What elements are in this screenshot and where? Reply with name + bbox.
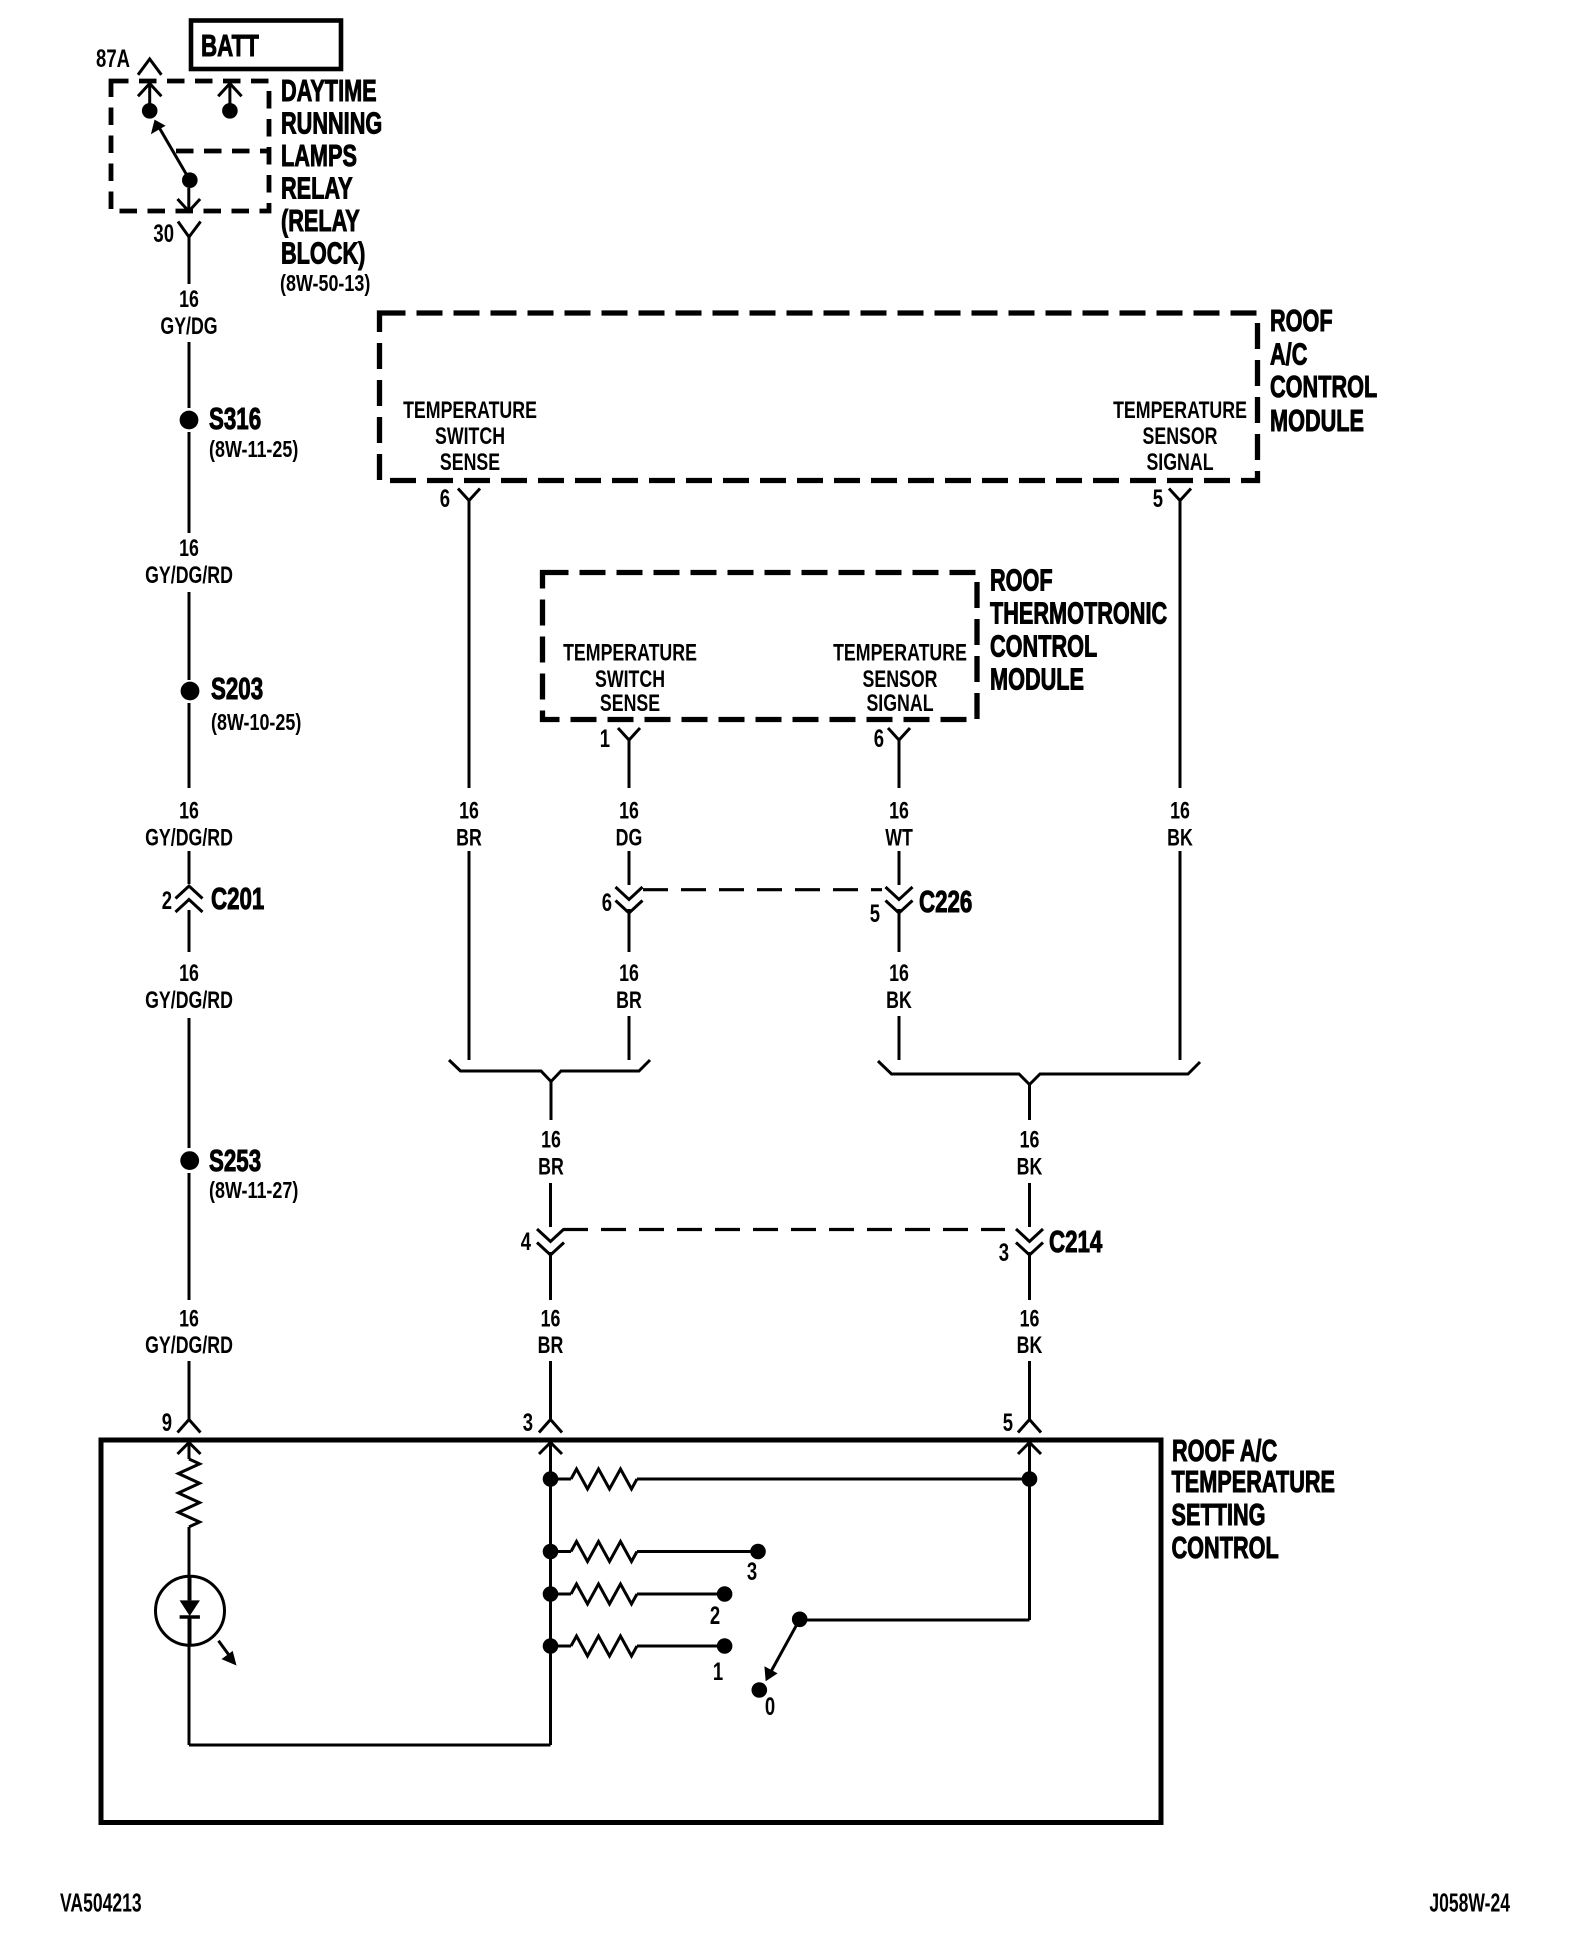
connector C214 pin 3	[1016, 1229, 1043, 1242]
wire BK to pin 5	[1028, 1361, 1031, 1420]
merged BR wire	[550, 1082, 553, 1121]
wire	[188, 1527, 191, 1579]
wire	[188, 1361, 191, 1420]
svg-text:BK: BK	[1017, 1154, 1043, 1180]
svg-text:(8W-11-25): (8W-11-25)	[209, 437, 298, 463]
svg-text:(RELAY: (RELAY	[281, 203, 360, 238]
wire from lamp to bottom rail	[188, 1645, 191, 1745]
svg-text:GY/DG: GY/DG	[160, 314, 217, 340]
svg-text:1: 1	[600, 724, 610, 752]
svg-text:(8W-50-13): (8W-50-13)	[280, 271, 370, 297]
wire	[188, 432, 191, 533]
wire BR below C226	[628, 909, 631, 952]
wire BK below C214	[1028, 1252, 1031, 1300]
svg-text:DAYTIME: DAYTIME	[281, 73, 377, 108]
svg-text:SENSE: SENSE	[600, 691, 660, 717]
svg-text:CONTROL: CONTROL	[990, 629, 1097, 664]
wire DG lower segment	[628, 851, 631, 885]
C226 harness dashed link	[643, 888, 882, 891]
svg-text:16: 16	[459, 798, 479, 824]
relay pin 30 internal wire + down arrow	[187, 188, 190, 211]
svg-text:3: 3	[523, 1408, 533, 1436]
wire	[188, 851, 191, 884]
svg-text:BATT: BATT	[201, 28, 259, 62]
svg-text:LAMPS: LAMPS	[281, 138, 357, 173]
relay pin 86 terminal (arrow + dot)	[218, 84, 241, 97]
svg-text:16: 16	[1170, 798, 1190, 824]
svg-text:5: 5	[1003, 1408, 1013, 1436]
resistor row1	[551, 1478, 572, 1481]
wire	[188, 342, 191, 408]
svg-text:S253: S253	[209, 1143, 261, 1177]
wire WT from thermotronic pin 6	[898, 740, 901, 788]
resistor row2	[551, 1550, 572, 1553]
svg-text:BK: BK	[886, 988, 912, 1014]
svg-text:MODULE: MODULE	[990, 662, 1084, 697]
svg-text:5: 5	[870, 899, 880, 927]
svg-text:BR: BR	[616, 988, 642, 1014]
component: ROOF A/C TEMPERATURE SETTING CONTROL box	[101, 1440, 1161, 1823]
wire WT lower segment	[898, 851, 901, 885]
resistor row4	[551, 1645, 572, 1648]
svg-text:VA504213: VA504213	[60, 1888, 142, 1917]
svg-text:TEMPERATURE: TEMPERATURE	[403, 398, 537, 424]
svg-text:MODULE: MODULE	[1270, 403, 1364, 438]
wire BR below C214	[549, 1252, 552, 1300]
merged BK wire to C214	[1028, 1183, 1031, 1227]
connector C201 pin 2	[176, 886, 203, 899]
wire BK from roof A/C pin 5	[1179, 501, 1182, 789]
svg-text:16: 16	[889, 961, 909, 987]
svg-text:SENSOR: SENSOR	[1142, 424, 1217, 450]
svg-text:RUNNING: RUNNING	[281, 106, 382, 141]
terminal 0 dot	[752, 1682, 768, 1698]
svg-text:TEMPERATURE: TEMPERATURE	[833, 640, 967, 666]
svg-text:BR: BR	[538, 1333, 564, 1359]
wire BK to splice brace	[898, 1016, 901, 1060]
relay: daytime running lamps relay (relay block) K1	[111, 81, 269, 211]
power source BATT	[191, 21, 341, 70]
svg-text:GY/DG/RD: GY/DG/RD	[145, 988, 233, 1014]
svg-text:6: 6	[440, 484, 450, 512]
relay switch arm with arrow toward 87A	[159, 127, 190, 180]
relay pin 87A terminal (arrow + dot)	[138, 84, 161, 97]
svg-text:9: 9	[162, 1408, 172, 1436]
svg-text:16: 16	[179, 798, 199, 824]
relay internal divider	[176, 149, 269, 154]
svg-text:(8W-11-27): (8W-11-27)	[209, 1178, 298, 1204]
junction dot row1	[543, 1471, 559, 1487]
wire	[188, 1018, 191, 1148]
wire	[188, 592, 191, 680]
lamp arrow indicator	[219, 1641, 231, 1657]
merged BK wire	[1028, 1085, 1031, 1121]
svg-text:DG: DG	[616, 825, 643, 851]
svg-text:TEMPERATURE: TEMPERATURE	[1172, 1464, 1336, 1499]
pin 87A chevron above relay	[138, 59, 161, 75]
svg-text:(8W-10-25): (8W-10-25)	[211, 710, 301, 736]
svg-text:S203: S203	[211, 671, 263, 705]
selector switch arm with arrow	[771, 1619, 800, 1671]
svg-text:0: 0	[765, 1692, 775, 1720]
lamp/LED circle	[156, 1576, 225, 1645]
terminal 2 dot	[717, 1586, 733, 1602]
svg-text:TEMPERATURE: TEMPERATURE	[563, 640, 697, 666]
splice S203	[181, 682, 200, 701]
svg-text:S316: S316	[209, 401, 261, 435]
selector wire to pin5 column	[800, 1619, 1030, 1622]
svg-text:SIGNAL: SIGNAL	[1146, 450, 1213, 476]
svg-text:16: 16	[179, 961, 199, 987]
svg-text:C226: C226	[919, 884, 972, 918]
relay switch common dot	[182, 172, 198, 188]
splice S253	[180, 1151, 199, 1170]
svg-text:BR: BR	[538, 1154, 564, 1180]
junction dot row1 right	[1022, 1471, 1038, 1487]
junction dot row4	[543, 1638, 559, 1654]
wire: relay 30 down	[188, 237, 191, 284]
svg-text:16: 16	[889, 798, 909, 824]
svg-text:16: 16	[619, 798, 639, 824]
svg-text:BK: BK	[1167, 825, 1193, 851]
svg-text:GY/DG/RD: GY/DG/RD	[145, 1333, 233, 1359]
wire	[188, 703, 191, 788]
svg-text:SENSOR: SENSOR	[862, 667, 937, 693]
junction dot row3	[543, 1586, 559, 1602]
wire row4 to terminal 1	[637, 1645, 725, 1648]
svg-text:16: 16	[1020, 1306, 1040, 1332]
svg-text:87A: 87A	[96, 44, 130, 72]
svg-text:SWITCH: SWITCH	[435, 424, 505, 450]
wire row3 to terminal 2	[637, 1593, 725, 1596]
wire row2 to terminal 3	[637, 1550, 758, 1553]
svg-text:ROOF: ROOF	[1270, 303, 1333, 338]
svg-text:16: 16	[1020, 1127, 1040, 1153]
svg-text:2: 2	[162, 886, 172, 914]
svg-text:16: 16	[179, 536, 199, 562]
svg-text:6: 6	[874, 724, 884, 752]
svg-text:3: 3	[747, 1557, 757, 1585]
connector C226 pin 5	[886, 887, 913, 900]
selector switch pivot dot	[792, 1612, 808, 1628]
svg-text:BLOCK): BLOCK)	[281, 236, 365, 271]
wire BK below C226	[898, 909, 901, 952]
splice brace joining BR wires	[449, 1060, 650, 1082]
svg-text:CONTROL: CONTROL	[1270, 369, 1377, 404]
svg-text:4: 4	[521, 1227, 532, 1255]
svg-text:1: 1	[713, 1657, 723, 1685]
svg-text:ROOF A/C: ROOF A/C	[1172, 1433, 1277, 1468]
wire	[188, 910, 191, 952]
wire BR to splice brace	[628, 1016, 631, 1060]
bottom rail wire to pin3 column	[189, 1744, 551, 1747]
svg-text:ROOF: ROOF	[990, 563, 1053, 598]
svg-text:GY/DG/RD: GY/DG/RD	[145, 563, 233, 589]
svg-text:16: 16	[541, 1127, 561, 1153]
svg-text:SIGNAL: SIGNAL	[866, 691, 933, 717]
terminal 1 dot	[717, 1638, 733, 1654]
C214 harness dashed link	[563, 1228, 1005, 1231]
junction dot row2	[543, 1544, 559, 1560]
svg-text:3: 3	[999, 1238, 1009, 1266]
connector C226 pin 6	[616, 887, 643, 900]
splice brace joining BK wires	[878, 1061, 1200, 1085]
svg-text:CONTROL: CONTROL	[1172, 1530, 1279, 1565]
svg-text:5: 5	[1153, 484, 1163, 512]
svg-text:16: 16	[179, 1306, 199, 1332]
resistor (vertical) at pin 9	[178, 1459, 199, 1527]
svg-text:SETTING: SETTING	[1172, 1497, 1266, 1532]
module: ROOF THERMOTRONIC CONTROL MODULE	[543, 573, 978, 720]
svg-text:SWITCH: SWITCH	[595, 667, 665, 693]
wire BR lower segment	[468, 851, 471, 1060]
svg-text:SENSE: SENSE	[440, 450, 500, 476]
svg-text:BR: BR	[456, 825, 482, 851]
svg-text:A/C: A/C	[1270, 337, 1307, 372]
connector C214 pin 4	[537, 1229, 564, 1242]
svg-text:16: 16	[179, 287, 199, 313]
svg-text:C201: C201	[211, 881, 264, 915]
wire	[188, 1173, 191, 1300]
wire row1 to pin5 column	[637, 1478, 1030, 1481]
pin 30 Y connector below relay	[178, 222, 201, 238]
svg-text:6: 6	[602, 888, 612, 916]
svg-text:RELAY: RELAY	[281, 171, 353, 206]
wire BR to pin 3	[549, 1361, 552, 1420]
terminal 3 dot	[750, 1544, 766, 1560]
svg-text:30: 30	[153, 219, 174, 247]
wire DG from thermotronic pin 1	[628, 740, 631, 788]
resistor row3	[551, 1593, 572, 1596]
svg-text:BK: BK	[1017, 1333, 1043, 1359]
LED diode (triangle + bar)	[188, 1576, 192, 1600]
svg-text:16: 16	[541, 1306, 561, 1332]
svg-text:16: 16	[619, 961, 639, 987]
wire BR from roof A/C pin 6	[468, 501, 471, 789]
module: ROOF A/C CONTROL MODULE	[380, 313, 1258, 481]
svg-text:GY/DG/RD: GY/DG/RD	[145, 825, 233, 851]
merged BR wire to C214	[549, 1183, 552, 1227]
splice S316	[180, 411, 199, 430]
svg-text:WT: WT	[885, 825, 913, 851]
svg-text:C214: C214	[1049, 1224, 1102, 1258]
svg-text:J058W-24: J058W-24	[1429, 1888, 1510, 1917]
svg-text:2: 2	[710, 1601, 720, 1629]
svg-text:TEMPERATURE: TEMPERATURE	[1113, 398, 1247, 424]
svg-text:THERMOTRONIC: THERMOTRONIC	[990, 596, 1167, 631]
wire BK lower segment	[1179, 851, 1182, 1060]
